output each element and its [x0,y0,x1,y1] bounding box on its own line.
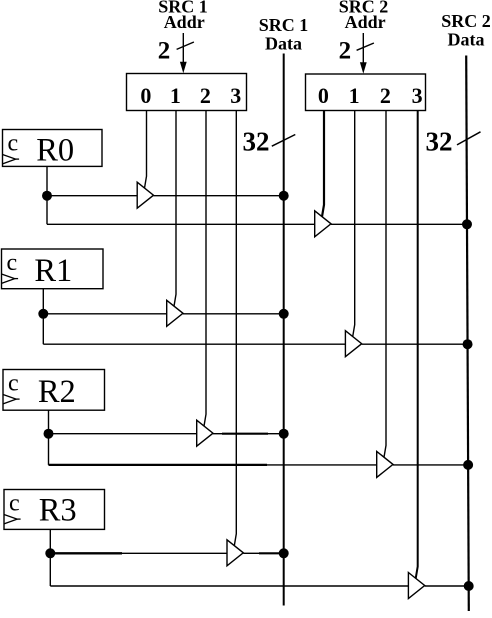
tri-state buffer B11 (SRC 1 port, R1) [167,300,183,326]
SRC 1 Data bus [283,54,285,606]
wire: buffer B13 output to SRC1 Data bus [243,552,259,554]
svg-text:R3: R3 [39,493,77,529]
wire: buffer B20 output to SRC2 Data bus [331,223,467,225]
register R0 clock wedge [3,155,16,164]
wire: R1 to SRC2 buffer [43,343,345,345]
register R2 box [3,370,105,411]
svg-text:SRC 2: SRC 2 [441,11,491,31]
node: SRC1 Data bus junction (row R1) [279,309,289,319]
svg-text:SRC 1: SRC 1 [259,15,309,35]
wire: DEC2 output 1 enable [353,111,355,337]
bus-width slash (SRC 2 Data) [457,132,481,145]
wire: R0 output stub [46,166,48,195]
bus-width slash (SRC 1 Data) [272,135,296,147]
register R3 clock wedge [4,515,17,524]
bus-width slash (SRC 1 Addr) [177,42,194,49]
wire: R0 to SRC1 buffer [47,195,137,197]
wire: R0 down-leg [46,196,48,225]
decoder DEC1 (SRC 1 address decoder) [127,74,247,111]
register R1 clock wedge [2,274,15,283]
svg-text:32: 32 [426,126,453,156]
wire: R3 output stub [49,529,51,553]
svg-text:3: 3 [412,83,423,108]
svg-text:R1: R1 [34,253,72,289]
svg-text:Data: Data [265,33,302,53]
svg-text:2: 2 [200,83,211,108]
wire: buffer B23 output to SRC2 Data bus [425,585,469,587]
svg-text:0: 0 [318,83,329,108]
svg-text:c: c [8,371,19,397]
node: R3 output junction [45,548,55,558]
wire: buffer B10 output to SRC1 Data bus [154,195,284,197]
svg-text:3: 3 [230,83,241,108]
wire: R2 to SRC1 buffer [49,433,197,435]
svg-text:Data: Data [448,30,485,50]
tri-state buffer B10 (SRC 1 port, R0) [137,182,153,208]
wire: DEC2 output 0 enable [322,111,324,217]
tri-state buffer B20 (SRC 2 port, R0) [315,211,331,237]
wire: SRC 1 Addr input [182,33,184,64]
wire: R1 to SRC1 buffer [43,313,166,315]
svg-text:Addr: Addr [345,12,386,32]
label: SRC 2 Data [441,11,491,49]
tri-state buffer B21 (SRC 2 port, R1) [345,331,361,357]
wire: R3 to SRC2 buffer [50,585,408,587]
svg-text:c: c [8,131,19,157]
decoder DEC2 (SRC 2 address decoder) [306,74,426,111]
register R1 box [2,249,104,289]
svg-text:2: 2 [158,38,171,65]
tri-state buffer B22 (SRC 2 port, R2) [377,451,393,477]
register R0 box [3,130,103,167]
wire: DEC2 output 2 enable [384,111,386,458]
tri-state buffer B23 (SRC 2 port, R3) [408,573,424,599]
node: R0 output junction [42,191,52,201]
label: SRC 1 Data [259,15,309,53]
svg-text:c: c [9,491,20,517]
wire: R2 output stub [48,410,50,434]
svg-text:2: 2 [380,83,391,108]
svg-text:c: c [7,250,18,276]
register R2 clock wedge [3,395,16,404]
node: SRC2 Data bus junction (row R3) [464,581,474,591]
wire: buffer B11 output to SRC1 Data bus [183,313,284,315]
wire: DEC1 output 2 enable [204,111,206,427]
svg-text:R0: R0 [36,132,74,168]
wire: DEC1 output 0 enable [145,111,147,189]
node: SRC1 Data bus junction (row R3) [279,548,289,558]
node: SRC2 Data bus junction (row R2) [463,460,473,470]
tri-state buffer B12 (SRC 1 port, R2) [197,420,213,446]
SRC 2 Data bus [466,56,469,612]
wire: R2 down-leg [48,434,50,465]
wire: SRC 2 Addr input [362,33,364,65]
bus-width slash (SRC 2 Addr) [357,43,374,50]
node: SRC1 Data bus junction (row R0) [279,191,289,201]
wire: R0 to SRC2 buffer [47,223,315,225]
arrow into decoder 1 [180,62,187,74]
node: R2 output junction [44,429,54,439]
wire: R1 output stub [42,289,44,314]
tri-state buffer B13 (SRC 1 port, R3) [227,540,243,566]
wire: buffer B22 output to SRC2 Data bus [393,464,468,466]
svg-text:1: 1 [170,83,181,108]
wire: R1 down-leg [42,314,44,344]
wire: R2 to SRC2 buffer [49,464,268,466]
node: R1 output junction [38,309,48,319]
label: SRC 2 Addr [339,0,389,32]
wire: buffer B12 output to SRC1 Data bus [213,433,222,435]
arrow into decoder 2 [360,62,367,74]
node: SRC1 Data bus junction (row R2) [279,429,289,439]
wire: buffer B21 output to SRC2 Data bus [362,343,468,345]
svg-text:1: 1 [349,83,360,108]
wire: R3 down-leg [49,553,51,586]
svg-text:R2: R2 [38,374,76,410]
wire: DEC2 output 3 enable [416,111,418,579]
wire: DEC1 output 1 enable [174,111,176,307]
register R3 box [4,490,105,530]
svg-text:Addr: Addr [164,12,205,32]
label: SRC 1 Addr [158,0,208,32]
wire: DEC1 output 3 enable [234,111,236,546]
svg-text:0: 0 [140,83,151,108]
node: SRC2 Data bus junction (row R0) [462,219,472,229]
svg-text:2: 2 [339,38,352,65]
wire: R3 to SRC1 buffer [50,552,122,554]
svg-text:32: 32 [243,126,270,156]
node: SRC2 Data bus junction (row R1) [463,339,473,349]
